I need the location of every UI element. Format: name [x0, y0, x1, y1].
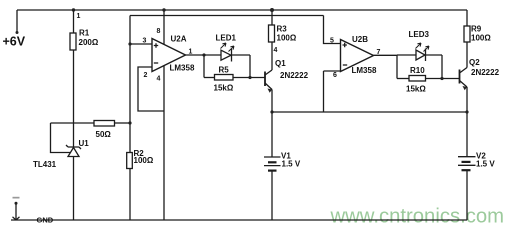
wire: pin 4 column to ground rail [163, 66, 165, 220]
node: junction LED3/R10 right [440, 77, 443, 80]
svg-text:100Ω: 100Ω [277, 34, 297, 43]
svg-text:TL431: TL431 [33, 160, 57, 169]
wire: Q1 collector to R3 [271, 42, 273, 70]
wire: U2B pin 6 input [324, 70, 341, 72]
node: junction emitter / mid rail [270, 110, 273, 113]
svg-text:200Ω: 200Ω [79, 38, 99, 47]
wire: LED3 cathode [426, 54, 443, 56]
svg-text:+6V: +6V [3, 35, 26, 49]
svg-text:Q2: Q2 [469, 58, 480, 67]
wire: U2A pin 2 feedback loop [138, 67, 164, 111]
op-amp U2A LM358 [152, 39, 186, 72]
wire: U2B output pin 7 [374, 54, 398, 56]
svg-text:50Ω: 50Ω [96, 130, 112, 139]
node: junction Q2 emitter / mid rail [465, 110, 468, 113]
wire: R5 right lead to Q1 base [233, 77, 265, 79]
svg-text:4: 4 [157, 76, 161, 83]
shunt regulator U1 TL431 [66, 145, 81, 149]
resistor R2 100Ω [127, 153, 133, 169]
wire: R9 to top rail [466, 10, 468, 26]
resistor R1 200Ω [70, 33, 76, 50]
wire: pin 8 supply column [163, 10, 165, 44]
wire: V1 to ground rail [271, 172, 273, 221]
svg-text:R10: R10 [410, 66, 425, 75]
wire: U2A output pin 1 [186, 54, 205, 56]
svg-text:1: 1 [77, 13, 81, 20]
wire: R1 to TL431 cathode [73, 50, 75, 147]
wire: R2 to ground rail [129, 169, 131, 221]
resistor R9 100Ω [464, 26, 470, 42]
svg-text:LED1: LED1 [216, 34, 237, 43]
resistor R10 15kΩ [409, 76, 426, 82]
ground reference terminal [13, 197, 20, 199]
svg-text:R1: R1 [79, 29, 90, 38]
svg-text:Q1: Q1 [275, 59, 286, 68]
svg-text:2: 2 [144, 72, 148, 79]
wire: U2A pin 3 input [130, 43, 152, 45]
svg-text:1.5 V: 1.5 V [476, 160, 495, 169]
svg-text:www.cntronics.com: www.cntronics.com [330, 205, 505, 227]
wire: parallel branch left bar [203, 55, 205, 78]
wire: Q2 collector to R9 [466, 42, 468, 68]
svg-text:5: 5 [330, 38, 334, 45]
svg-text:100Ω: 100Ω [134, 156, 154, 165]
wire: Q2 emitter down [466, 87, 468, 157]
resistor R5 15kΩ [215, 75, 234, 81]
svg-text:R5: R5 [219, 66, 230, 75]
resistor 50Ω [94, 121, 115, 127]
svg-text:U2B: U2B [352, 35, 368, 44]
wire: U2B pin 6 column [323, 71, 325, 112]
resistor R3 100Ω [269, 25, 275, 42]
wire: parallel branch right bar [249, 55, 251, 78]
op-amp U2B LM358 [341, 40, 374, 72]
wire: sense line drop to U2B pin 5 [324, 16, 341, 44]
svg-text:LED3: LED3 [409, 30, 430, 39]
svg-text:8: 8 [157, 28, 161, 35]
svg-text:U2A: U2A [171, 35, 187, 44]
node 1 (junction top rail / R1) [72, 8, 75, 11]
svg-text:R9: R9 [471, 25, 482, 34]
node: junction pin3 tap [128, 42, 131, 45]
svg-text:1.5 V: 1.5 V [282, 160, 301, 169]
transistor Q1 2N2222 [264, 72, 266, 87]
wire: 50Ω to reference node column [115, 122, 131, 124]
wire: sense column x=130 [129, 16, 131, 153]
svg-text:15kΩ: 15kΩ [406, 85, 426, 94]
wire: ref loop to 50Ω resistor [51, 122, 95, 124]
LED LED3 [416, 50, 425, 60]
node +6V terminal [16, 10, 18, 32]
wire: mid rail (emitters common) [272, 111, 467, 113]
wire: bottom ground rail [11, 219, 467, 221]
svg-text:U1: U1 [79, 139, 90, 148]
svg-text:2N2222: 2N2222 [471, 68, 500, 77]
transistor Q2 2N2222 [459, 70, 461, 84]
wire: R10 right lead to Q2 base [426, 78, 460, 80]
battery V1 1.5 V [264, 156, 281, 158]
node: junction LED/R5 right [248, 76, 251, 79]
wire: top +6V rail [17, 9, 467, 11]
svg-text:4: 4 [274, 47, 278, 54]
wire: R3 to top rail [271, 10, 273, 25]
wire: TL431 ref loop (left) [51, 123, 71, 153]
wire: LED1 anode [204, 54, 221, 56]
wire: Q1 emitter down [271, 90, 273, 158]
node: junction top rail / R3 [270, 8, 274, 12]
wire: LED1 cathode [232, 54, 251, 56]
wire: V2 to ground rail [466, 171, 468, 220]
svg-text:6: 6 [333, 72, 337, 79]
wire: parallel branch left bar (stage2) [396, 55, 398, 79]
node: junction output / LED1 branch [202, 53, 205, 56]
svg-text:LM358: LM358 [352, 66, 377, 75]
wire: sense line (box top edge) [130, 15, 324, 17]
node: junction 50Ω / R2 column [128, 121, 131, 124]
wire: LED3 anode [397, 54, 416, 56]
wire: R5 left lead [204, 77, 215, 79]
svg-text:15kΩ: 15kΩ [214, 84, 234, 93]
svg-text:LM358: LM358 [170, 64, 195, 73]
svg-text:100Ω: 100Ω [471, 34, 491, 43]
svg-text:2N2222: 2N2222 [280, 71, 309, 80]
wire: TL431 anode to ground rail [73, 157, 75, 221]
svg-text:3: 3 [143, 38, 147, 45]
wire: top rail to R1 [73, 10, 75, 33]
svg-text:GND: GND [37, 216, 54, 225]
svg-text:R3: R3 [277, 25, 288, 34]
wire: R10 left lead [397, 78, 409, 80]
wire: parallel branch right bar (stage2) [441, 55, 443, 79]
battery V2 1.5 V [458, 156, 476, 158]
LED LED1 [221, 50, 231, 60]
